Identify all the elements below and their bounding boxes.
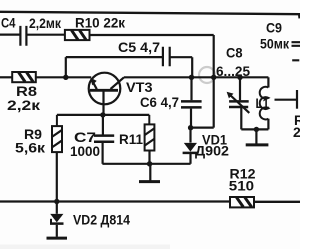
node VD1 top [188,125,193,130]
wire left edge to R8 [0,76,12,78]
node divider junction [63,75,68,80]
wire L1 tap [275,99,297,101]
svg-text:C8: C8 [226,44,243,60]
svg-text:6...25: 6...25 [216,63,250,79]
svg-text:C9: C9 [266,20,282,36]
transistor VT3 [89,73,124,115]
svg-text:C6 4,7: C6 4,7 [140,94,179,110]
capacitor C7 [102,115,104,135]
svg-text:50мк: 50мк [260,36,290,52]
wire jog to VD1 node [191,126,214,128]
wire divider up [65,57,67,77]
top rail end tick [298,15,300,19]
scan wash bottom [0,245,170,249]
node C8 top [237,75,242,80]
resistor R8 [12,72,36,82]
svg-text:510: 510 [229,178,255,194]
wire base node bus [57,114,149,116]
resistor R11 [145,115,155,164]
capacitor C6 [190,77,192,100]
wire R8 to emitter [36,76,91,78]
mid-bottom rail [102,163,190,165]
diode VD2 zener [47,199,68,238]
svg-text:2,2к: 2,2к [7,97,41,113]
svg-text:Д902: Д902 [195,142,229,158]
diode VD1 [183,128,198,164]
node C6 top [189,75,194,80]
capacitor C4 [20,26,26,46]
svg-text:C4: C4 [1,15,16,31]
tank bottom rail [241,128,268,130]
top supply rail [0,12,300,14]
inductor L1 [260,77,269,129]
svg-text:2,2мк: 2,2мк [29,15,62,31]
bottom rail [0,200,300,203]
svg-text:R11: R11 [119,131,143,147]
wire R10 to vertical [90,34,214,36]
node base junction [100,112,105,117]
node vert x214 [211,75,216,80]
capacitor C5 [163,47,170,66]
wire C4 to R10 [27,34,65,36]
resistor R10 [65,30,90,40]
svg-text:R10 22к: R10 22к [75,15,126,31]
svg-text:C5 4,7: C5 4,7 [118,39,160,55]
ground under R11 [149,164,151,181]
ground under tank [255,129,257,143]
svg-text:VT3: VT3 [126,79,153,95]
wire C4 left [0,33,20,35]
node tank gnd [254,127,259,132]
mid collector rail [124,76,268,78]
resistor R9 [52,115,62,202]
resistor R12 [230,197,254,207]
capacitor C8 variable [227,77,250,129]
capacitor edge plate [296,90,298,109]
svg-text:1000: 1000 [70,143,100,159]
wire to C5 [66,56,163,58]
svg-text:2: 2 [293,124,300,140]
svg-text:VD2 Д814: VD2 Д814 [73,212,130,228]
svg-text:L1: L1 [256,95,270,111]
stain ring artifact [199,67,215,83]
svg-text:5,6к: 5,6к [15,140,46,156]
node R11 bottom [147,161,152,166]
wire C5 right [170,57,192,77]
capacitor C9 plates [292,42,301,60]
wire vertical x214 down [213,35,215,128]
